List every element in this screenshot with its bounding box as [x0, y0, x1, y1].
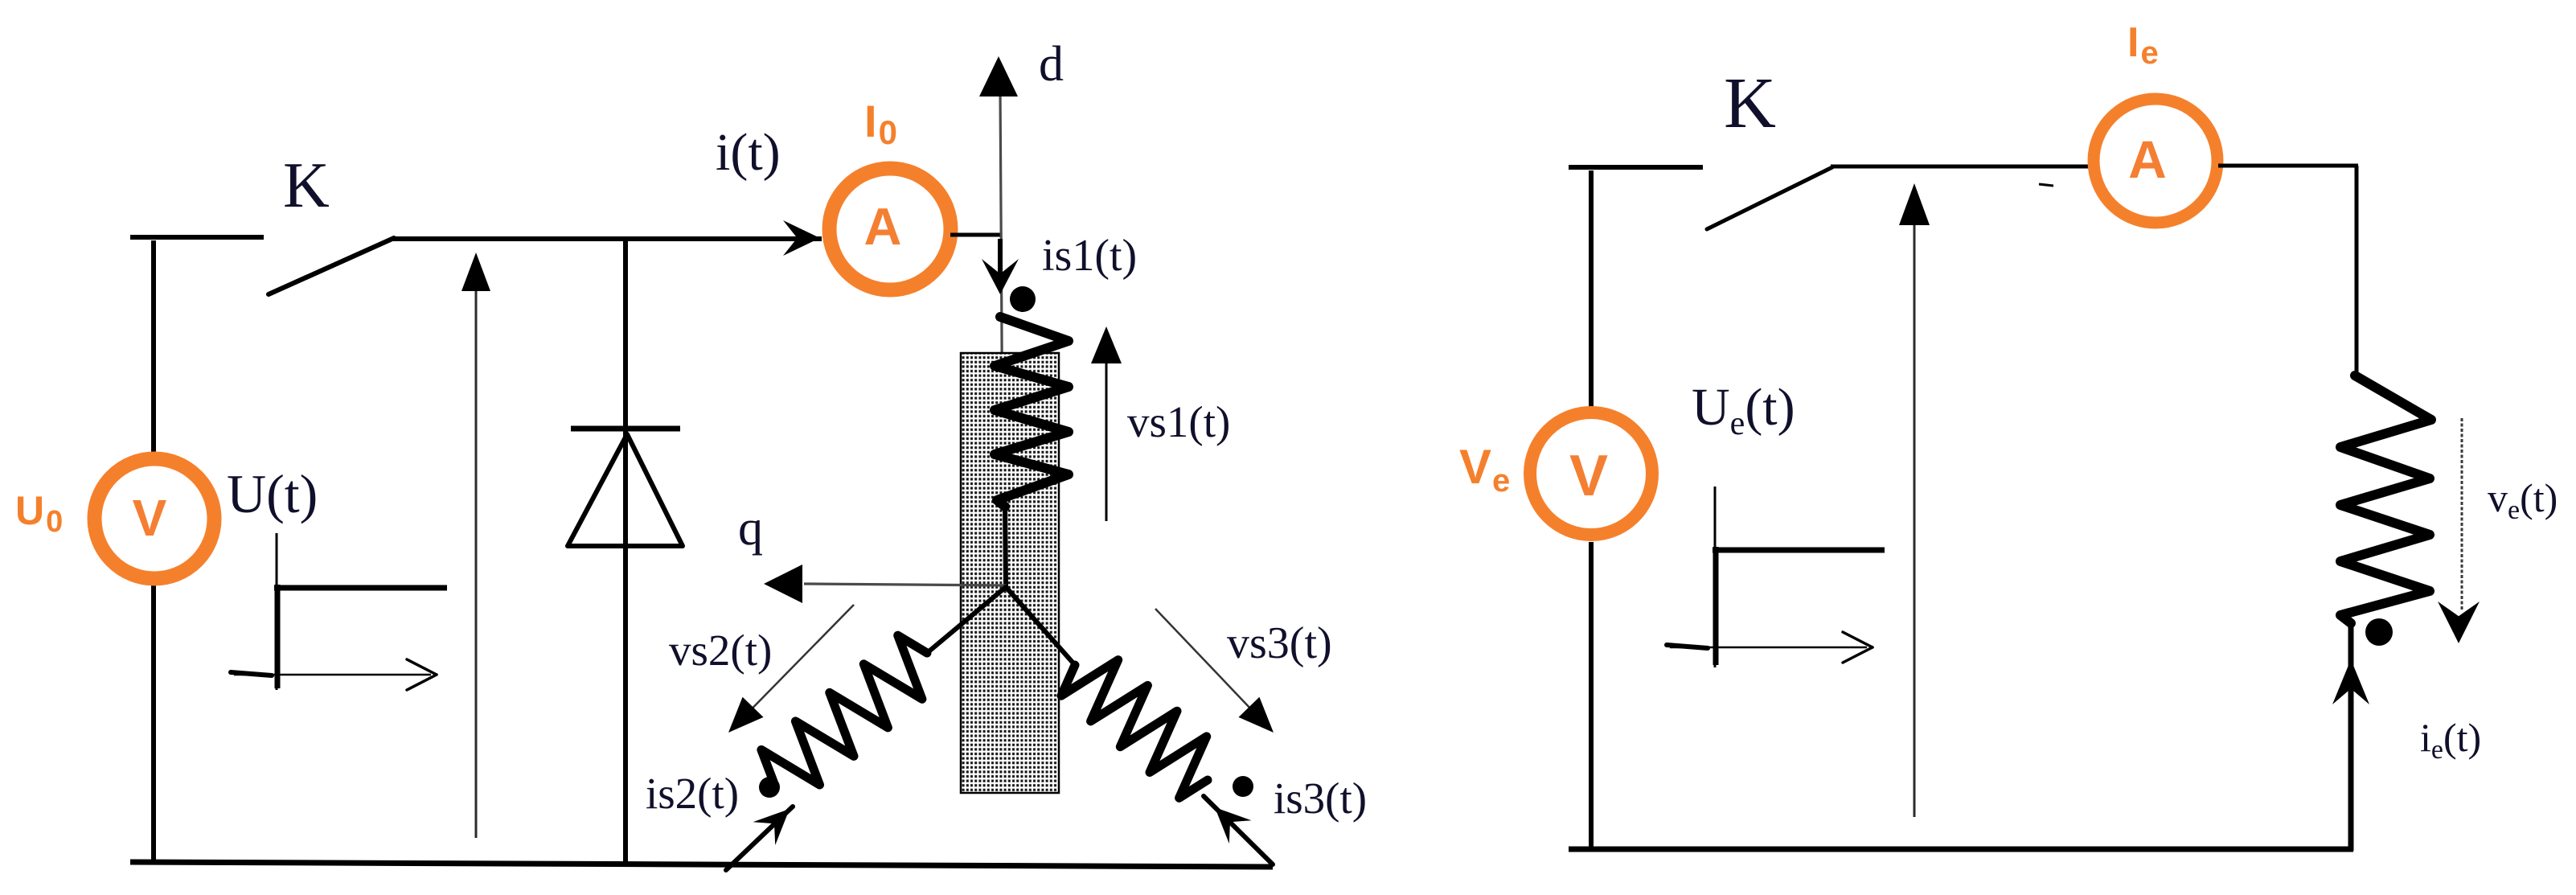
svg-text:ie(t): ie(t): [2420, 715, 2481, 765]
svg-text:K: K: [1724, 64, 1776, 143]
svg-text:q: q: [738, 501, 763, 556]
svg-text:U(t): U(t): [227, 463, 318, 524]
svg-text:vs3(t): vs3(t): [1227, 618, 1332, 668]
svg-text:i(t): i(t): [716, 123, 781, 182]
svg-text:d: d: [1039, 37, 1064, 92]
svg-text:U0: U0: [15, 488, 63, 539]
svg-text:Ue(t): Ue(t): [1692, 378, 1795, 442]
svg-text:A: A: [864, 197, 902, 256]
svg-text:V: V: [133, 489, 167, 547]
svg-text:V: V: [1569, 444, 1608, 508]
svg-text:I0: I0: [864, 96, 897, 151]
svg-text:ve(t): ve(t): [2488, 475, 2558, 525]
svg-text:vs1(t): vs1(t): [1127, 397, 1230, 446]
svg-text:is2(t): is2(t): [646, 769, 739, 818]
svg-text:Ve: Ve: [1459, 440, 1510, 499]
svg-text:Ie: Ie: [2127, 19, 2159, 71]
svg-text:is3(t): is3(t): [1274, 774, 1367, 823]
svg-text:A: A: [2128, 129, 2167, 189]
svg-text:is1(t): is1(t): [1042, 231, 1137, 281]
svg-text:vs2(t): vs2(t): [669, 626, 772, 675]
svg-text:K: K: [283, 150, 330, 221]
